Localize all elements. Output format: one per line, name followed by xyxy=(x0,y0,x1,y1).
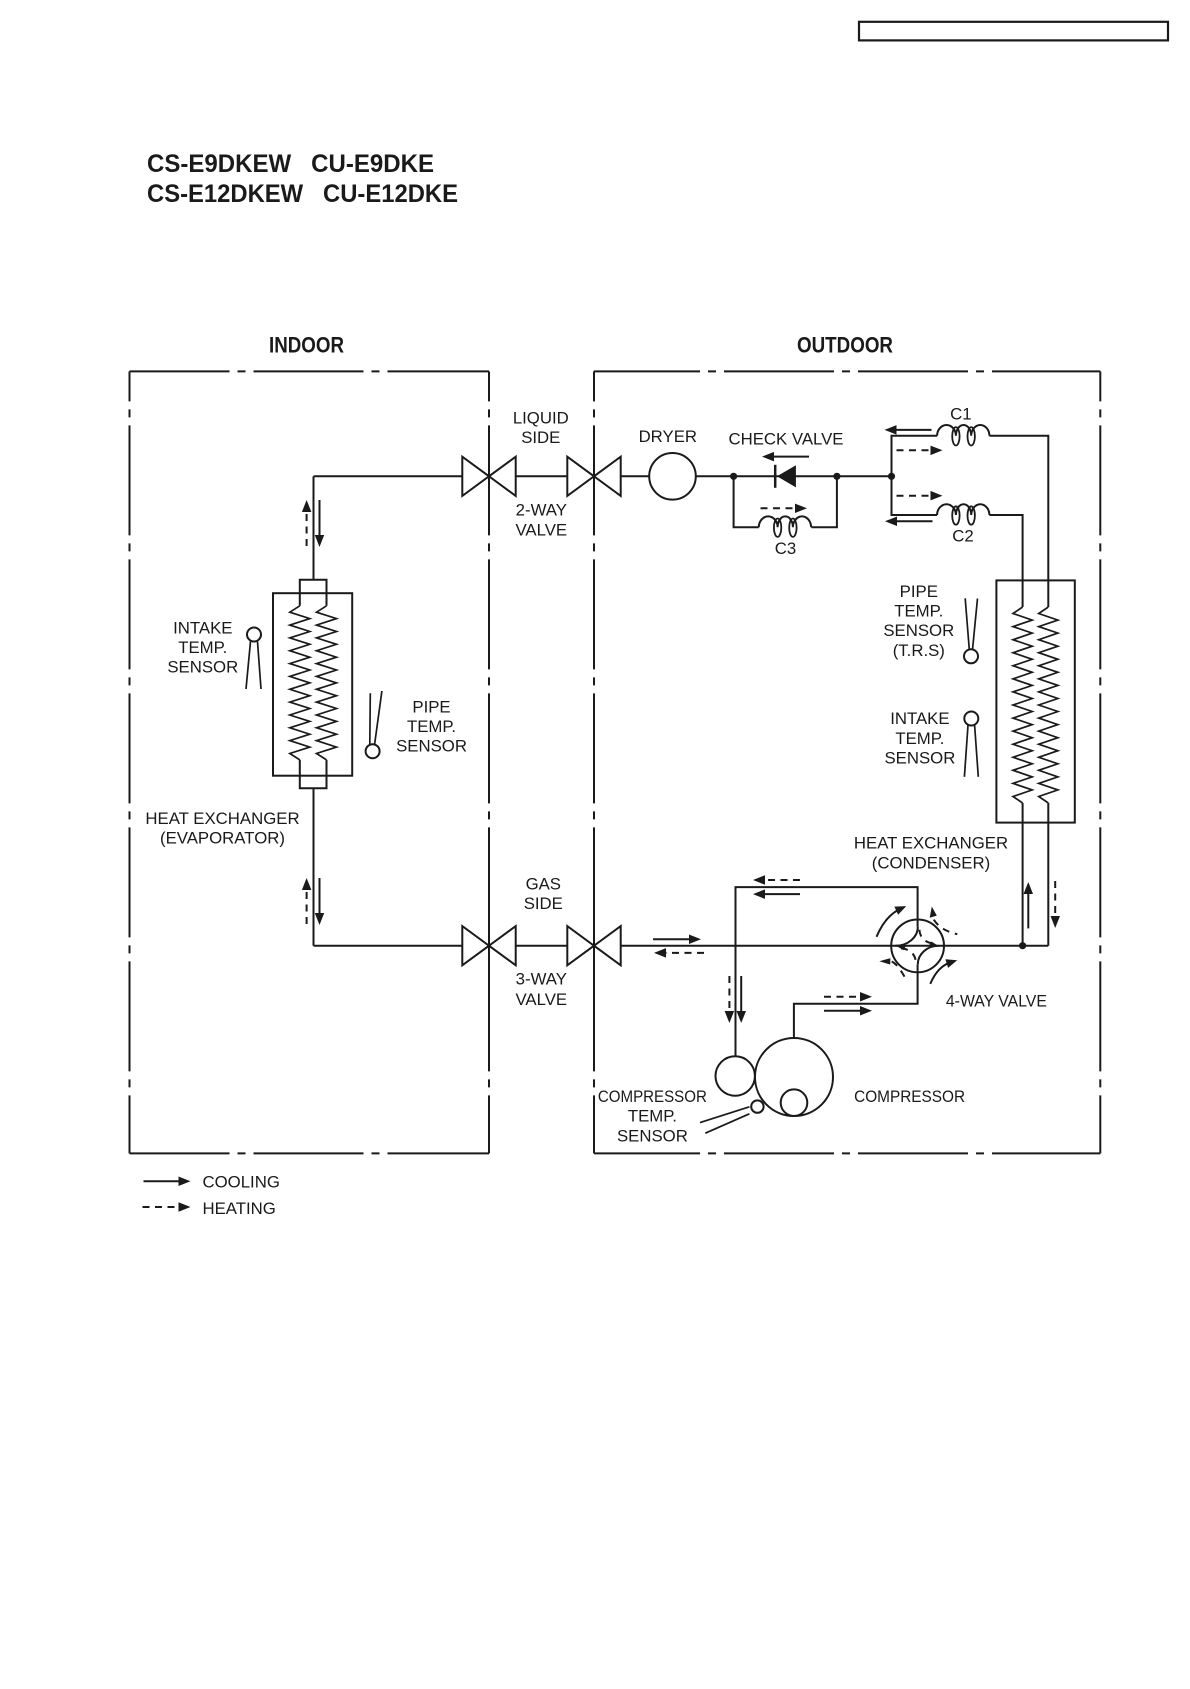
svg-text:C1: C1 xyxy=(950,405,971,424)
heating arrow accumulator xyxy=(728,976,730,1013)
cooling curved arrow top-left xyxy=(877,909,901,937)
heating curved arrow bottom-left xyxy=(892,962,905,977)
svg-text:PIPE: PIPE xyxy=(412,698,450,717)
dryer xyxy=(649,453,696,500)
svg-text:PIPE: PIPE xyxy=(900,582,938,601)
svg-text:VALVE: VALVE xyxy=(515,990,567,1009)
wire 4-way valve down to compressor xyxy=(794,964,918,1038)
wire condenser right down to gas line xyxy=(1047,803,1049,946)
wire C3 bypass loop xyxy=(734,476,759,527)
compressor xyxy=(755,1038,833,1116)
svg-text:INTAKE: INTAKE xyxy=(173,618,232,637)
wire between valves xyxy=(516,475,568,477)
heating arrow top path xyxy=(763,879,800,881)
evaporator coil right xyxy=(317,606,337,760)
wire branch down to C2 xyxy=(892,476,938,515)
svg-text:(EVAPORATOR): (EVAPORATOR) xyxy=(160,829,285,848)
svg-text:TEMP.: TEMP. xyxy=(628,1107,677,1126)
cooling arrow gas line right xyxy=(653,938,691,940)
svg-text:LIQUID: LIQUID xyxy=(513,408,569,427)
wire gas line indoor xyxy=(314,945,463,947)
svg-text:INTAKE: INTAKE xyxy=(890,709,949,728)
3-way service valve (outdoor side bowtie) xyxy=(567,926,594,965)
svg-text:SENSOR: SENSOR xyxy=(167,658,238,677)
indoor intake temp sensor xyxy=(247,628,261,642)
4-way valve left flow harpoon xyxy=(897,946,907,950)
header box xyxy=(859,22,1168,41)
svg-text:OUTDOOR: OUTDOOR xyxy=(797,332,893,357)
svg-text:TEMP.: TEMP. xyxy=(178,638,227,657)
svg-text:HEATING: HEATING xyxy=(203,1199,276,1218)
svg-text:HEAT EXCHANGER: HEAT EXCHANGER xyxy=(854,833,1008,852)
heating arrow condenser down xyxy=(1054,881,1056,918)
cooling arrow indoor lower pipe down xyxy=(319,878,321,915)
wire between gas valves xyxy=(516,945,568,947)
capillary C2 coil xyxy=(937,504,989,515)
evaporator body xyxy=(273,593,352,776)
legend heating xyxy=(143,1206,181,1208)
heating curved arrow top-right xyxy=(934,920,958,935)
outdoor heat exchanger (condenser) body xyxy=(996,580,1074,822)
svg-text:COOLING: COOLING xyxy=(203,1173,280,1192)
svg-text:C3: C3 xyxy=(775,539,796,558)
evaporator top stub xyxy=(300,580,327,606)
svg-text:SENSOR: SENSOR xyxy=(883,621,954,640)
cooling arrow condenser up xyxy=(1027,892,1029,928)
svg-text:3-WAY: 3-WAY xyxy=(516,970,567,989)
svg-text:TEMP.: TEMP. xyxy=(894,602,943,621)
condenser coil right xyxy=(1039,607,1058,803)
legend cooling xyxy=(144,1180,181,1182)
indoor unit boundary box xyxy=(130,370,490,372)
svg-text:CS-E9DKEW CU-E9DKE: CS-E9DKEW CU-E9DKE xyxy=(147,150,434,178)
svg-text:2-WAY: 2-WAY xyxy=(516,501,567,520)
svg-text:(CONDENSER): (CONDENSER) xyxy=(872,854,990,873)
node junction right of check valve xyxy=(833,473,840,480)
capillary C3 coil xyxy=(759,516,811,527)
wire liquid line down pipe indoor xyxy=(313,476,315,580)
svg-text:HEAT EXCHANGER: HEAT EXCHANGER xyxy=(145,809,299,828)
svg-text:TEMP.: TEMP. xyxy=(407,717,456,736)
svg-text:(T.R.S): (T.R.S) xyxy=(893,641,945,660)
cooling arrow C2 line xyxy=(895,520,932,522)
heating arrow indoor lower pipe up xyxy=(306,888,308,924)
wire C1 to condenser right xyxy=(989,436,1048,607)
indoor pipe temp sensor xyxy=(366,744,380,758)
cooling arrow compressor inlet xyxy=(824,1010,862,1012)
outdoor intake temp sensor xyxy=(964,712,978,726)
heating arrow gas line left xyxy=(664,952,704,954)
svg-text:DRYER: DRYER xyxy=(639,427,697,446)
svg-text:CS-E12DKEW CU-E12DKE: CS-E12DKEW CU-E12DKE xyxy=(147,180,458,208)
wire evaporator down to gas line xyxy=(313,788,315,946)
node junction left of check valve xyxy=(730,473,737,480)
svg-text:SENSOR: SENSOR xyxy=(617,1127,688,1146)
svg-text:TEMP.: TEMP. xyxy=(895,729,944,748)
heating arrow in C3 loop xyxy=(761,507,797,509)
heating arrow compressor inlet xyxy=(824,996,862,998)
wire valve to dryer xyxy=(621,475,650,477)
condenser coil left xyxy=(1013,607,1032,803)
wire branch up to C1 xyxy=(892,436,938,477)
heating arrow C2 line xyxy=(897,495,933,497)
evaporator coil left xyxy=(290,606,310,760)
4-way valve heating passage top-right (dashed) xyxy=(920,930,935,944)
4-way valve heating passage bottom-left (dashed) xyxy=(901,948,916,962)
svg-text:GAS: GAS xyxy=(526,875,561,894)
outdoor unit boundary box xyxy=(594,370,1100,372)
wire condenser left down to gas line xyxy=(1022,803,1024,946)
wire gas line down to accumulator xyxy=(735,946,737,1057)
svg-text:CHECK VALVE: CHECK VALVE xyxy=(728,429,843,448)
cooling curved arrow bottom-right xyxy=(930,962,950,984)
wire liquid line indoor xyxy=(314,475,463,477)
cooling arrow C1 line xyxy=(895,429,932,431)
svg-text:COMPRESSOR: COMPRESSOR xyxy=(598,1087,707,1106)
compressor temp sensor xyxy=(751,1100,763,1112)
cooling arrow over check valve xyxy=(772,456,809,458)
4-way valve body xyxy=(891,920,944,973)
svg-text:SIDE: SIDE xyxy=(524,894,563,913)
3-way valve (indoor side bowtie) xyxy=(462,926,489,965)
outdoor pipe temp sensor (T.R.S) xyxy=(964,649,978,663)
cooling arrow indoor pipe down xyxy=(319,500,321,537)
accumulator xyxy=(716,1056,755,1095)
cooling arrow top path xyxy=(763,893,800,895)
wire dryer to check valve xyxy=(696,475,892,477)
svg-text:SENSOR: SENSOR xyxy=(396,737,467,756)
node branch to C1/C2 xyxy=(888,473,895,480)
svg-text:C2: C2 xyxy=(952,527,973,546)
heating arrow C1 line xyxy=(897,449,933,451)
4-way valve cooling passage top-left xyxy=(896,927,918,946)
evaporator bottom stub xyxy=(300,760,327,788)
check valve (diode symbol) xyxy=(774,465,777,488)
svg-text:SENSOR: SENSOR xyxy=(884,748,955,767)
wire gas line outdoor xyxy=(621,945,1049,947)
cooling arrow accumulator xyxy=(740,976,742,1013)
heating arrow indoor pipe up xyxy=(306,510,308,546)
svg-text:INDOOR: INDOOR xyxy=(269,332,344,357)
capillary C1 coil xyxy=(937,425,989,436)
svg-text:COMPRESSOR: COMPRESSOR xyxy=(854,1087,965,1106)
svg-text:VALVE: VALVE xyxy=(515,521,567,540)
4-way valve cooling passage bottom-right xyxy=(918,946,939,965)
wire gas line up to 4-way valve xyxy=(736,887,918,946)
node condenser-gas junction xyxy=(1019,942,1026,949)
svg-text:4-WAY VALVE: 4-WAY VALVE xyxy=(946,991,1047,1010)
2-way service valve (outdoor side bowtie) xyxy=(567,457,594,496)
2-way valve (indoor side bowtie) xyxy=(462,457,489,496)
wire C2 to condenser left xyxy=(989,515,1022,607)
4-way valve right flow harpoon xyxy=(929,942,938,946)
svg-text:SIDE: SIDE xyxy=(521,428,560,447)
